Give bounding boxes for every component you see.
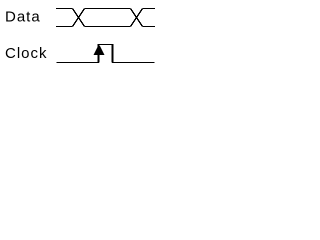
svg-text:Data: Data [5, 9, 41, 26]
svg-text:Clock: Clock [5, 45, 48, 62]
